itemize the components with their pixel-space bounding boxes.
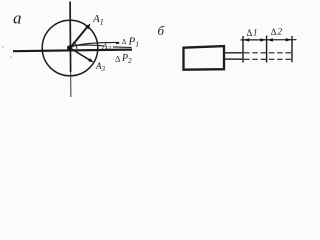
svg-text:б: б [158, 23, 165, 38]
rod bottom [224, 58, 243, 60]
svg-text:2: 2 [278, 27, 283, 37]
extension line v2 [266, 36, 268, 63]
vertical axis [69, 2, 72, 73]
svg-text:1: 1 [253, 28, 258, 38]
horizontal axis [13, 50, 132, 52]
vector A2 upper [71, 42, 120, 47]
dim arrow at v3 [286, 38, 292, 41]
svg-text:а: а [13, 9, 22, 28]
angle arc [73, 42, 77, 49]
center dot [67, 45, 72, 50]
vector A1 [70, 26, 89, 49]
svg-text:Δ: Δ [115, 53, 121, 63]
dim arrow right of v2 [267, 38, 273, 41]
rod top [224, 52, 243, 54]
svg-text:Δ: Δ [271, 27, 277, 37]
dim arrow at v1 [244, 38, 250, 41]
vector A2 lower line [73, 44, 104, 47]
svg-text:Δ: Δ [247, 28, 253, 38]
extension line v1 [242, 36, 244, 63]
svg-text:Δ: Δ [122, 38, 127, 46]
core rectangle [184, 46, 225, 70]
dimension line [241, 39, 297, 41]
dashed rod top [244, 52, 292, 54]
paper speck [2, 46, 3, 47]
dim arrow left of v2 [260, 38, 266, 41]
circle [42, 20, 98, 76]
dashed rod bottom [244, 58, 292, 60]
vector A3 [70, 48, 90, 60]
extension line v3 [291, 36, 293, 62]
